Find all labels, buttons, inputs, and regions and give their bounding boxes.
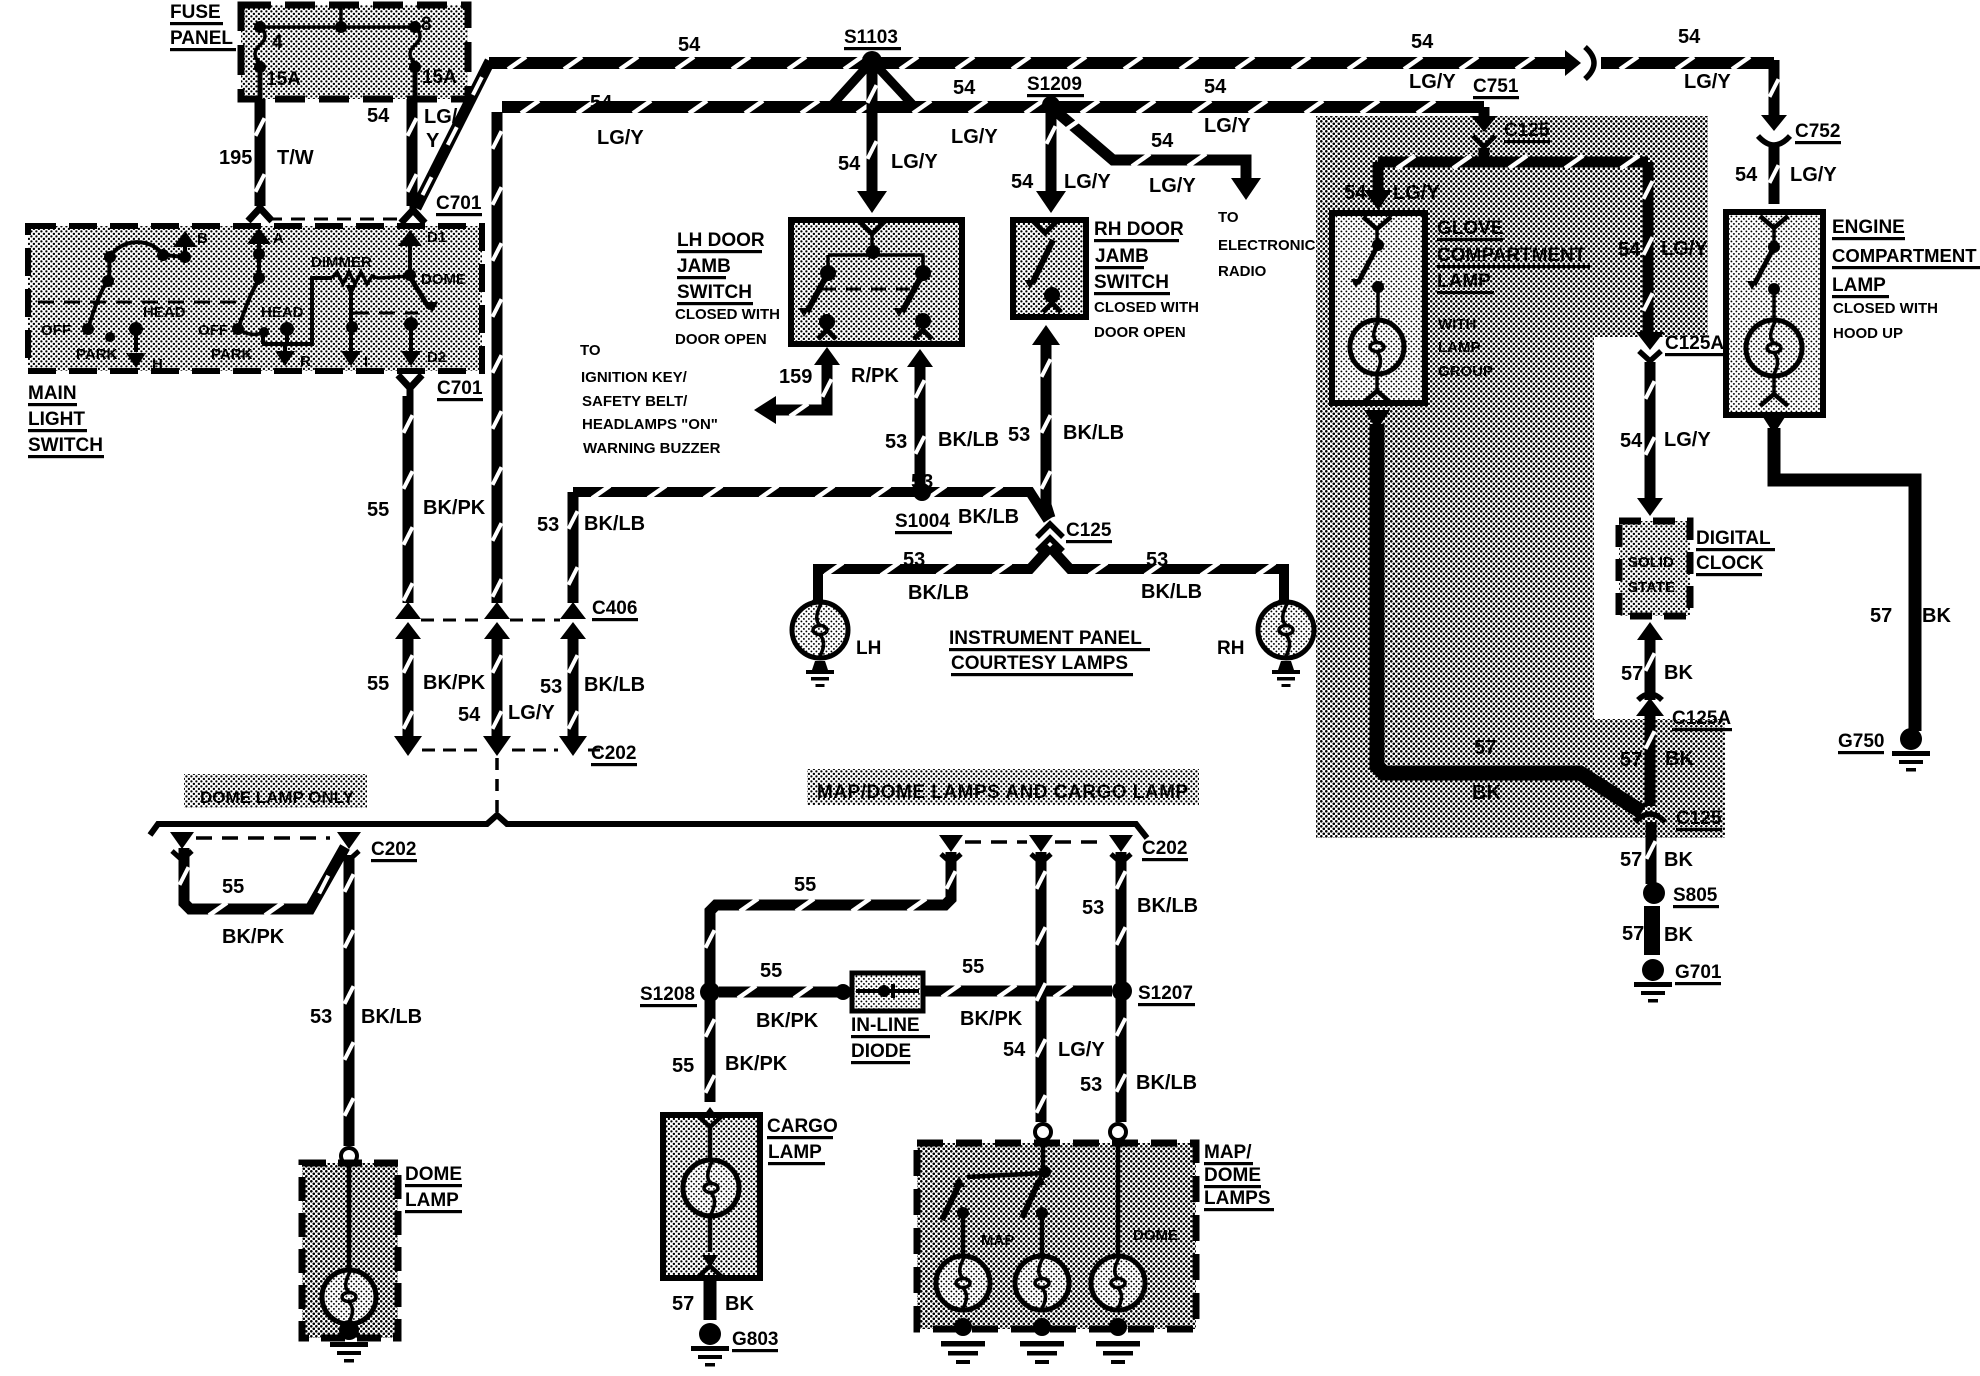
wire 159 R/PK to warning buzzer xyxy=(814,347,840,365)
connector C202 dome lamp only xyxy=(170,832,194,849)
svg-text:C125A: C125A xyxy=(1672,708,1731,729)
main light switch first pole OFF HEAD PARK xyxy=(88,257,110,329)
svg-text:57: 57 xyxy=(1474,737,1496,759)
svg-text:BK/PK: BK/PK xyxy=(423,497,486,519)
svg-text:BK: BK xyxy=(1922,605,1951,627)
svg-text:HEAD: HEAD xyxy=(143,304,186,321)
svg-text:DOME LAMP ONLY: DOME LAMP ONLY xyxy=(200,788,355,807)
svg-text:MAP/: MAP/ xyxy=(1204,1142,1252,1163)
svg-text:55: 55 xyxy=(760,960,782,982)
svg-text:BK/LB: BK/LB xyxy=(584,513,645,535)
cargo lamp box xyxy=(663,1115,760,1278)
svg-text:53: 53 xyxy=(885,431,907,453)
svg-text:COMPARTMENT: COMPARTMENT xyxy=(1832,245,1977,266)
wire 54 LG/Y from S1209 down to RH door jamb switch xyxy=(1046,107,1057,192)
svg-text:SWITCH: SWITCH xyxy=(1094,272,1169,293)
svg-text:PARK: PARK xyxy=(211,346,253,363)
fuse 4 15A xyxy=(255,27,265,63)
wire 53 BK/LB horizontal from C406 drop to S1004 and C125 xyxy=(573,492,1048,520)
ground G750 xyxy=(1900,728,1922,750)
svg-text:54: 54 xyxy=(678,34,701,56)
svg-text:I: I xyxy=(364,353,368,370)
wire 53 BK/LB from LH jamb switch to S1004 xyxy=(907,349,933,367)
svg-text:PANEL: PANEL xyxy=(170,28,233,49)
svg-text:LG/Y: LG/Y xyxy=(1684,71,1731,93)
svg-text:15A: 15A xyxy=(422,67,457,88)
svg-text:BK: BK xyxy=(1665,748,1694,770)
svg-text:LH: LH xyxy=(856,638,881,659)
svg-text:STATE: STATE xyxy=(1628,579,1675,596)
svg-text:LG/Y: LG/Y xyxy=(1393,182,1440,204)
wire 55 BK/PK from main light switch D2 down xyxy=(403,396,414,603)
svg-text:53: 53 xyxy=(1080,1074,1102,1096)
connector C751 xyxy=(1565,50,1581,76)
glove compartment lamp box xyxy=(1332,213,1425,403)
svg-text:S1208: S1208 xyxy=(640,984,695,1005)
wire 54 LG/Y from S1209 to electronic radio arrow xyxy=(1051,107,1246,180)
svg-text:SWITCH: SWITCH xyxy=(677,282,752,303)
svg-text:LG/Y: LG/Y xyxy=(1149,175,1196,197)
map dome lamps box xyxy=(917,1143,1196,1329)
body separation line xyxy=(150,815,1147,838)
svg-text:HEAD: HEAD xyxy=(261,304,304,321)
svg-text:C752: C752 xyxy=(1795,121,1840,142)
svg-text:BK/LB: BK/LB xyxy=(584,674,645,696)
svg-text:54: 54 xyxy=(458,704,481,726)
main light switch R circuit xyxy=(262,278,332,344)
shaded region: glove compartment lamp group area xyxy=(1316,116,1725,838)
svg-text:54: 54 xyxy=(1344,182,1367,204)
svg-text:LAMP: LAMP xyxy=(1832,275,1886,296)
svg-text:RH DOOR: RH DOOR xyxy=(1094,219,1184,240)
svg-text:S1209: S1209 xyxy=(1027,74,1082,95)
svg-text:55: 55 xyxy=(672,1055,694,1077)
wire 53 BK/LB from RH door jamb switch down to C125 xyxy=(1046,340,1050,518)
dome switch blade xyxy=(410,277,429,308)
svg-text:LAMP: LAMP xyxy=(1438,339,1481,356)
svg-text:BK/LB: BK/LB xyxy=(958,506,1019,528)
svg-text:C125: C125 xyxy=(1676,808,1722,829)
svg-text:54: 54 xyxy=(1011,171,1034,193)
svg-text:LAMP: LAMP xyxy=(768,1142,822,1163)
ground G701 xyxy=(1642,959,1664,981)
wire 57 BK from cargo lamp to ground G803 xyxy=(704,1280,717,1320)
svg-text:JAMB: JAMB xyxy=(1095,246,1149,267)
svg-text:DOME: DOME xyxy=(1204,1165,1261,1186)
svg-text:C406: C406 xyxy=(592,598,637,619)
svg-text:53: 53 xyxy=(1008,424,1030,446)
svg-text:C701: C701 xyxy=(437,378,483,399)
main light switch box xyxy=(28,226,482,371)
fuse panel box xyxy=(241,5,468,99)
svg-text:C125A: C125A xyxy=(1665,333,1724,354)
svg-text:LG/Y: LG/Y xyxy=(1661,238,1708,260)
connector C202 upper xyxy=(394,736,422,756)
svg-text:53: 53 xyxy=(540,676,562,698)
svg-text:DIODE: DIODE xyxy=(851,1041,911,1062)
wire 53 BK/LB to LH courtesy lamp xyxy=(818,547,1050,600)
map lamp 1 xyxy=(961,1213,966,1255)
label MAP/DOME LAMPS AND CARGO LAMP xyxy=(807,769,1199,805)
svg-text:HEADLAMPS "ON": HEADLAMPS "ON" xyxy=(582,416,718,433)
wire 57 BK from engine lamp to ground G750 xyxy=(1761,414,1787,434)
svg-text:IN-LINE: IN-LINE xyxy=(851,1015,920,1036)
svg-text:BK: BK xyxy=(1664,924,1693,946)
splice S1103 xyxy=(862,51,882,71)
svg-text:DOME: DOME xyxy=(421,271,466,288)
svg-text:53: 53 xyxy=(903,549,925,571)
svg-text:159: 159 xyxy=(779,366,812,388)
wire 54 LG/Y from bus to C125A and clock xyxy=(1643,162,1654,336)
wire 54 LG/Y from S1103 down to LH door jamb switch xyxy=(867,66,878,192)
svg-text:JAMB: JAMB xyxy=(677,256,731,277)
svg-text:LG/Y: LG/Y xyxy=(1409,71,1456,93)
svg-text:LG/Y: LG/Y xyxy=(1790,164,1837,186)
svg-text:RH: RH xyxy=(1217,638,1244,659)
svg-text:HOOD UP: HOOD UP xyxy=(1833,325,1903,342)
svg-text:CLOSED WITH: CLOSED WITH xyxy=(1094,299,1199,316)
svg-text:CLOCK: CLOCK xyxy=(1696,553,1764,574)
wire 53 BK/LB from courtesy circuit down xyxy=(568,492,579,603)
svg-text:C202: C202 xyxy=(591,743,636,764)
svg-text:57: 57 xyxy=(1622,923,1644,945)
connector C701 upper xyxy=(257,199,264,208)
svg-text:53: 53 xyxy=(310,1006,332,1028)
svg-text:57: 57 xyxy=(1620,749,1642,771)
wire 54 LG/Y bus from fuse panel to S1103 C751 C752 xyxy=(489,57,1567,69)
svg-text:57: 57 xyxy=(1620,849,1642,871)
svg-text:BK: BK xyxy=(1472,782,1501,804)
svg-text:OFF: OFF xyxy=(198,322,228,339)
svg-text:54: 54 xyxy=(1151,130,1174,152)
svg-text:GLOVE: GLOVE xyxy=(1437,218,1504,239)
svg-text:C125: C125 xyxy=(1504,120,1550,141)
svg-text:D1: D1 xyxy=(427,229,446,246)
svg-text:RADIO: RADIO xyxy=(1218,263,1267,280)
svg-text:LG/Y: LG/Y xyxy=(597,127,644,149)
svg-text:LG/: LG/ xyxy=(424,106,458,128)
svg-text:BK: BK xyxy=(1664,849,1693,871)
svg-text:LG/Y: LG/Y xyxy=(1664,429,1711,451)
svg-text:G750: G750 xyxy=(1838,731,1884,752)
svg-text:C701: C701 xyxy=(436,193,482,214)
wires continue to C202 xyxy=(403,636,414,742)
svg-text:R: R xyxy=(300,353,311,370)
LH door jamb switch contacts xyxy=(870,234,874,248)
svg-text:BK/PK: BK/PK xyxy=(423,672,486,694)
svg-text:BK/PK: BK/PK xyxy=(222,926,285,948)
svg-text:MAIN: MAIN xyxy=(28,383,77,404)
svg-text:54: 54 xyxy=(1204,76,1227,98)
dome lamp in map/dome box xyxy=(1116,1140,1121,1256)
svg-text:LAMPS: LAMPS xyxy=(1204,1188,1271,1209)
wire 53 BK/LB to RH courtesy lamp xyxy=(1050,547,1284,600)
svg-text:BK/PK: BK/PK xyxy=(725,1053,788,1075)
svg-text:COMPARTMENT: COMPARTMENT xyxy=(1437,245,1586,266)
svg-text:55: 55 xyxy=(222,876,244,898)
svg-text:LAMP: LAMP xyxy=(1437,271,1491,292)
svg-text:WARNING BUZZER: WARNING BUZZER xyxy=(583,440,721,457)
svg-text:LAMP: LAMP xyxy=(405,1190,459,1211)
svg-text:54: 54 xyxy=(1003,1039,1026,1061)
wire 57 BK from C125 to S805 xyxy=(1646,822,1657,884)
main light switch dashed travel line xyxy=(38,301,240,304)
svg-text:S1103: S1103 xyxy=(844,27,898,48)
map/dome switch xyxy=(1041,1140,1046,1172)
cargo lamp bulb xyxy=(708,1127,713,1160)
svg-text:IGNITION KEY/: IGNITION KEY/ xyxy=(581,369,688,386)
svg-text:BK/LB: BK/LB xyxy=(1137,895,1198,917)
svg-text:BK/LB: BK/LB xyxy=(938,429,999,451)
svg-text:OFF: OFF xyxy=(41,322,71,339)
svg-text:BK/LB: BK/LB xyxy=(1063,422,1124,444)
svg-text:15A: 15A xyxy=(266,69,301,90)
connector C406 xyxy=(395,602,421,619)
svg-text:GROUP: GROUP xyxy=(1438,363,1493,380)
svg-text:T/W: T/W xyxy=(277,147,314,169)
svg-text:SOLID: SOLID xyxy=(1628,554,1674,571)
svg-text:DOOR OPEN: DOOR OPEN xyxy=(675,331,767,348)
wire 54 LG/Y second bus from C701 to S1209 and C125 xyxy=(492,112,503,603)
svg-text:54: 54 xyxy=(953,77,976,99)
main light switch pin B xyxy=(173,231,197,247)
wire 53 BK/LB from C202 through S1207 to dome lamp xyxy=(1116,852,1127,983)
in-line diode xyxy=(852,973,923,1011)
vertical dashed line below C202 xyxy=(495,758,499,812)
svg-text:SWITCH: SWITCH xyxy=(28,435,103,456)
svg-text:S1207: S1207 xyxy=(1138,983,1193,1004)
svg-text:LG/Y: LG/Y xyxy=(508,702,555,724)
svg-text:BK/LB: BK/LB xyxy=(1141,581,1202,603)
LH instrument panel courtesy lamp xyxy=(810,598,826,606)
svg-text:R/PK: R/PK xyxy=(851,365,899,387)
svg-text:54: 54 xyxy=(590,92,613,114)
wire 55 BK/PK jumper loop xyxy=(184,847,345,909)
svg-text:54: 54 xyxy=(1620,430,1643,452)
svg-text:BK/PK: BK/PK xyxy=(960,1008,1023,1030)
splice S1004 xyxy=(913,483,931,501)
svg-text:53: 53 xyxy=(1146,549,1168,571)
wire continues to S1207 xyxy=(923,986,1112,997)
svg-text:57: 57 xyxy=(1870,605,1892,627)
wire 55 BK/PK from C202 to S1208 xyxy=(710,852,951,984)
main light switch second pole OFF HEAD PARK xyxy=(238,280,259,329)
diagonal connecting S1103 to second bus xyxy=(833,61,872,104)
svg-text:BK/LB: BK/LB xyxy=(1136,1072,1197,1094)
svg-text:54: 54 xyxy=(838,153,861,175)
splice S805 xyxy=(1643,882,1665,904)
wire 55 BK/PK from S1208 through in-line diode to S1207 xyxy=(719,987,838,998)
svg-text:BK/LB: BK/LB xyxy=(908,582,969,604)
RH door jamb switch contact xyxy=(1032,240,1053,284)
svg-text:COURTESY LAMPS: COURTESY LAMPS xyxy=(951,653,1128,674)
svg-text:54: 54 xyxy=(1411,31,1434,53)
svg-text:DIGITAL: DIGITAL xyxy=(1696,528,1771,549)
svg-text:57: 57 xyxy=(1621,663,1643,685)
svg-text:MAP/DOME LAMPS AND CARGO LAMP: MAP/DOME LAMPS AND CARGO LAMP xyxy=(817,782,1189,803)
svg-text:H: H xyxy=(152,356,163,373)
svg-text:LG/Y: LG/Y xyxy=(951,126,998,148)
svg-text:LG/Y: LG/Y xyxy=(1204,115,1251,137)
connector C125 bottom xyxy=(1635,814,1665,822)
svg-text:S805: S805 xyxy=(1673,885,1718,906)
svg-text:SAFETY BELT/: SAFETY BELT/ xyxy=(582,393,688,410)
svg-text:LG/Y: LG/Y xyxy=(1058,1039,1105,1061)
svg-text:TO: TO xyxy=(1218,209,1239,226)
main light switch pin D1 and DOME contact xyxy=(398,230,422,246)
svg-text:BK/LB: BK/LB xyxy=(361,1006,422,1028)
svg-text:C751: C751 xyxy=(1473,76,1519,97)
wire 57 BK from clock to C125A lower xyxy=(1637,622,1663,640)
splice S1208 xyxy=(700,982,720,1002)
svg-text:B: B xyxy=(197,230,208,247)
svg-text:53: 53 xyxy=(537,514,559,536)
svg-text:INSTRUMENT PANEL: INSTRUMENT PANEL xyxy=(949,628,1142,649)
svg-text:BK/PK: BK/PK xyxy=(756,1010,819,1032)
engine compartment lamp box xyxy=(1726,212,1823,415)
svg-text:WITH: WITH xyxy=(1438,316,1476,333)
svg-text:55: 55 xyxy=(962,956,984,978)
LH door jamb switch box xyxy=(791,220,962,344)
splice S1209 xyxy=(1042,96,1060,114)
main light switch I circuit xyxy=(346,285,357,297)
svg-text:53: 53 xyxy=(1082,897,1104,919)
svg-text:54: 54 xyxy=(367,105,390,127)
wire 54 LG/Y bus from C125 to glove lamp and C125A xyxy=(1479,148,1490,160)
svg-text:195: 195 xyxy=(219,147,252,169)
svg-text:TO: TO xyxy=(580,342,601,359)
wire 57 BK from S805 to ground G701 xyxy=(1644,906,1660,955)
svg-text:4: 4 xyxy=(272,32,283,53)
svg-text:DOME: DOME xyxy=(1133,1227,1178,1244)
svg-text:BK: BK xyxy=(725,1293,754,1315)
RH instrument panel courtesy lamp xyxy=(1276,598,1292,606)
svg-text:S1004: S1004 xyxy=(895,511,950,532)
dome lamp bulb xyxy=(347,1163,352,1270)
svg-text:ELECTRONIC: ELECTRONIC xyxy=(1218,237,1316,254)
connector C125 courtesy xyxy=(1037,524,1063,537)
svg-text:G803: G803 xyxy=(732,1329,778,1350)
svg-text:55: 55 xyxy=(367,499,389,521)
connector C752 xyxy=(1761,115,1787,131)
svg-text:BK: BK xyxy=(1664,662,1693,684)
svg-text:LIGHT: LIGHT xyxy=(28,409,85,430)
svg-text:C125: C125 xyxy=(1066,520,1112,541)
dome lamp ground xyxy=(339,1320,359,1340)
svg-text:LH DOOR: LH DOOR xyxy=(677,230,765,251)
svg-text:DIMMER: DIMMER xyxy=(311,254,372,271)
connector C125A lower xyxy=(1636,698,1664,716)
fuse 8 15A xyxy=(410,27,420,63)
engine lamp switch and bulb xyxy=(1772,228,1776,243)
svg-text:DOME: DOME xyxy=(405,1164,462,1185)
svg-text:CLOSED WITH: CLOSED WITH xyxy=(1833,300,1938,317)
svg-text:CLOSED WITH: CLOSED WITH xyxy=(675,306,780,323)
svg-text:G701: G701 xyxy=(1675,962,1722,983)
glove lamp switch and bulb xyxy=(1375,229,1379,241)
connector C125 top xyxy=(1471,116,1497,132)
label DOME LAMP ONLY xyxy=(184,774,367,808)
dome lamp box xyxy=(302,1163,398,1338)
wire 57 BK thick from glove lamp to C125 xyxy=(1364,410,1390,430)
ground G803 xyxy=(699,1323,721,1345)
svg-text:ENGINE: ENGINE xyxy=(1832,217,1905,238)
connector C202 map dome cargo xyxy=(939,835,963,852)
svg-text:MAP: MAP xyxy=(981,1232,1014,1249)
main light switch pin A xyxy=(247,228,271,244)
svg-text:CARGO: CARGO xyxy=(767,1116,838,1137)
wire 53 BK/LB down to dome lamp xyxy=(344,855,355,1146)
connector C701 lower xyxy=(398,375,422,388)
wire 54 LG/Y from C202 to map/dome lamps xyxy=(1036,852,1047,1122)
svg-text:55: 55 xyxy=(367,673,389,695)
main light switch pin D2 xyxy=(404,317,418,331)
svg-text:C202: C202 xyxy=(371,839,416,860)
fuse bus bar inside fuse panel xyxy=(260,25,415,29)
svg-text:55: 55 xyxy=(794,874,816,896)
digital clock solid state box xyxy=(1619,521,1690,616)
svg-text:D2: D2 xyxy=(427,349,446,366)
svg-text:57: 57 xyxy=(672,1293,694,1315)
wire from fuse 15A down and diagonal to C701 xyxy=(255,99,266,206)
svg-text:FUSE: FUSE xyxy=(170,2,221,23)
svg-text:54: 54 xyxy=(1618,239,1641,261)
svg-text:A: A xyxy=(273,230,284,247)
svg-text:54: 54 xyxy=(1735,164,1758,186)
svg-text:54: 54 xyxy=(1678,26,1701,48)
svg-text:DOOR OPEN: DOOR OPEN xyxy=(1094,324,1186,341)
svg-text:LG/Y: LG/Y xyxy=(1064,171,1111,193)
cargo lamp wire 55 BK/PK from S1208 down xyxy=(705,1000,716,1102)
svg-text:8: 8 xyxy=(421,14,432,35)
connector C125A upper xyxy=(1636,332,1664,350)
map lamp 2 xyxy=(1040,1213,1045,1256)
RH door jamb switch box xyxy=(1013,220,1086,317)
svg-text:C202: C202 xyxy=(1142,838,1187,859)
splice S1207 xyxy=(1112,981,1132,1001)
svg-text:PARK: PARK xyxy=(76,346,118,363)
svg-text:Y: Y xyxy=(426,130,440,152)
svg-text:LG/Y: LG/Y xyxy=(891,151,938,173)
